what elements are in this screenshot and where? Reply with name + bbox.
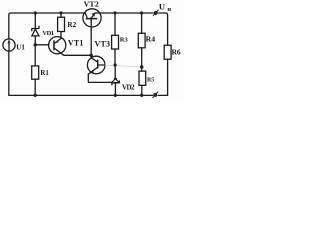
- wire rail to R2: [60, 13, 62, 17]
- svg-text:VD2: VD2: [122, 83, 135, 91]
- svg-text:R4: R4: [146, 34, 156, 43]
- wire junction to R1: [34, 45, 36, 66]
- svg-text:н: н: [167, 6, 171, 13]
- wire rail to R4: [141, 13, 143, 33]
- node VD1 top junction: [34, 11, 37, 14]
- transistor VT3: [87, 56, 105, 74]
- node R2 top junction: [59, 11, 62, 14]
- wire top rail to right corner: [158, 13, 167, 45]
- wire right vertical below R6: [158, 59, 168, 95]
- wire R4 to junction: [141, 48, 143, 71]
- svg-text:VT1: VT1: [68, 39, 84, 48]
- node R4 top junction: [140, 11, 143, 14]
- terminal output bottom: [153, 92, 158, 98]
- svg-text:VT2: VT2: [84, 0, 99, 9]
- wire VT1 base: [35, 44, 49, 46]
- wire R1 to bottom rail: [34, 79, 36, 95]
- node VD2 bottom junction: [114, 94, 117, 97]
- svg-text:R3: R3: [120, 37, 129, 44]
- wire R2 to VT1: [60, 32, 62, 39]
- resistor R4: [138, 33, 145, 48]
- node R3 top junction: [113, 11, 116, 14]
- wire to VD2: [114, 65, 116, 79]
- resistor R3: [112, 35, 119, 49]
- node A: VD1-VT1 base junction: [34, 43, 37, 46]
- resistor R1: [32, 66, 39, 79]
- wire VT3 base to R4/R5 junction (faint): [105, 65, 142, 67]
- terminal output top: [153, 10, 158, 16]
- svg-text:R6: R6: [172, 48, 181, 57]
- wire top rail right section: [95, 12, 153, 14]
- wire bottom rail: [9, 51, 153, 96]
- svg-text:R2: R2: [67, 21, 76, 29]
- wire VD1 branch from top rail: [34, 13, 36, 28]
- zener diode VD2: [112, 78, 120, 96]
- node VD2 top junction: [114, 63, 117, 66]
- transistor VT1: [49, 37, 66, 56]
- node VT2 base junction: [90, 54, 93, 57]
- wire VT1 emitter to VT2 base junction: [64, 54, 91, 56]
- wire VT2 base down to VT3: [90, 27, 92, 58]
- svg-text:R1: R1: [40, 70, 49, 77]
- wire top rail left section: [9, 13, 86, 39]
- wire R5 to bottom rail: [141, 85, 143, 95]
- node R4/R5 junction: [140, 65, 144, 69]
- source U1: [3, 39, 15, 51]
- wire VT3 emitter down and right to VD2: [88, 74, 115, 82]
- wire rail to R3: [114, 13, 116, 35]
- svg-text:R5: R5: [147, 77, 154, 83]
- resistor R5: [139, 71, 146, 85]
- svg-text:VT3: VT3: [95, 39, 111, 48]
- node VD2 bar junction: [114, 81, 117, 84]
- node R5 bottom junction: [140, 94, 143, 97]
- transistor VT2: [83, 9, 101, 27]
- wire R3 to VD2 node: [114, 49, 116, 65]
- node R1 bottom junction: [34, 94, 37, 97]
- svg-text:U: U: [159, 2, 165, 12]
- svg-text:U1: U1: [16, 43, 25, 51]
- svg-text:VD1: VD1: [42, 30, 53, 37]
- resistor R6: [164, 45, 171, 59]
- zener diode VD1: [32, 26, 39, 44]
- resistor R2: [58, 17, 65, 31]
